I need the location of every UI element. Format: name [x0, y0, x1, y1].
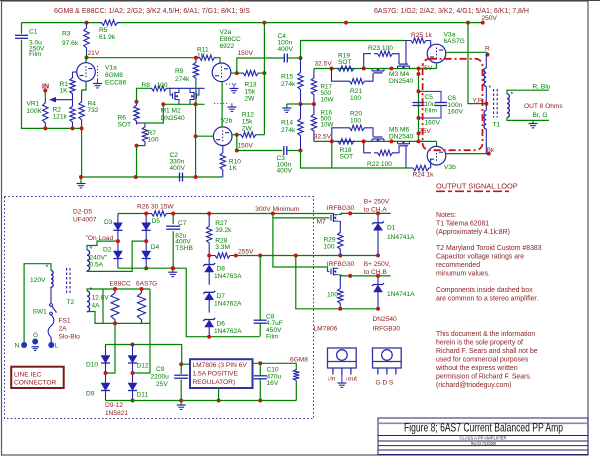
svg-text:16V: 16V: [267, 380, 279, 387]
svg-text:REGULATOR): REGULATOR): [193, 379, 236, 386]
wire M source to R7: [145, 104, 163, 124]
svg-text:2W: 2W: [242, 126, 253, 133]
resistor R13: [242, 70, 259, 75]
wire HV secondary bottom: [87, 241, 146, 271]
svg-text:32.5V: 32.5V: [315, 61, 333, 68]
zener D8: [208, 256, 210, 265]
diode D4: [145, 241, 147, 251]
wire mid ground link: [287, 103, 314, 105]
svg-text:OUTPUT SIGNAL LOOP: OUTPUT SIGNAL LOOP: [436, 182, 518, 191]
svg-text:255V: 255V: [238, 249, 254, 256]
wire cathode column: [418, 69, 420, 142]
wire input ground rail: [81, 128, 83, 177]
svg-text:6GM8: 6GM8: [290, 356, 308, 363]
wire 250V top rail: [22, 22, 103, 24]
svg-text:121k: 121k: [53, 114, 68, 121]
diode D5: [145, 214, 147, 223]
svg-text:DN2540: DN2540: [389, 78, 414, 85]
wire heater box: [87, 289, 150, 291]
regulator box LM7806: [190, 359, 253, 388]
resistor R22: [364, 141, 371, 152]
svg-text:↓in: ↓in: [327, 376, 336, 383]
svg-text:D5: D5: [152, 218, 161, 225]
title block: [378, 418, 588, 455]
svg-text:R22 100: R22 100: [367, 161, 392, 168]
svg-text:R9: R9: [175, 68, 184, 75]
svg-text:are common to a stereo amplifi: are common to a stereo amplifier.: [436, 296, 538, 303]
resistor R23: [364, 54, 371, 69]
package TO-220 DN2540: [373, 348, 402, 368]
svg-text:Y,P: Y,P: [473, 97, 483, 104]
svg-text:used for commercial purposes: used for commercial purposes: [436, 357, 529, 364]
capacitor C2: [179, 173, 181, 182]
wire C3 to R14 node: [287, 150, 301, 152]
resistor R20: [332, 128, 346, 142]
resistor R8: [150, 86, 168, 91]
resistor R19: [336, 66, 355, 71]
wire into regulator: [181, 363, 190, 365]
svg-text:IRFBG30: IRFBG30: [327, 205, 355, 212]
svg-text:Richard F. Sears and shall not: Richard F. Sears and shall not be: [436, 348, 538, 355]
wire regulator output: [253, 362, 297, 364]
svg-text:150V: 150V: [238, 143, 254, 150]
svg-text:LM7806 (3 PIN 6V: LM7806 (3 PIN 6V: [193, 362, 248, 369]
heater 6AS7G: [138, 289, 146, 323]
svg-text:10W: 10W: [321, 97, 334, 104]
wire LV bridge top rail: [106, 345, 182, 365]
svg-text:LM7806: LM7806: [314, 326, 338, 333]
svg-text:L: L: [55, 343, 59, 350]
resistor R2: [70, 100, 75, 129]
ground input stage: [80, 177, 82, 183]
resistor R25: [301, 41, 407, 59]
svg-text:V2a: V2a: [220, 29, 232, 36]
tube V3b: [427, 146, 446, 165]
svg-text:400V: 400V: [278, 46, 294, 53]
mosfet M1: [168, 87, 205, 89]
svg-text:R, Blu: R, Blu: [533, 83, 551, 90]
svg-text:39.2k: 39.2k: [215, 227, 232, 234]
svg-text:G: G: [33, 332, 38, 339]
svg-text:D12: D12: [137, 362, 149, 369]
resistor R3: [84, 23, 89, 54]
svg-text:0.5A: 0.5A: [90, 261, 104, 268]
svg-text:R29: R29: [324, 236, 336, 243]
wire LV ground rail: [106, 400, 297, 402]
svg-text:6AS7G: 1/G2; 2/A2, 3/K2, 4/G1;: 6AS7G: 1/G2; 2/A2, 3/K2, 4/G1; 5/A1; 6/K…: [374, 8, 529, 15]
svg-text:E88CC: E88CC: [220, 36, 241, 43]
V2b screen ground: [214, 102, 228, 104]
svg-text:1K: 1K: [60, 88, 69, 95]
plug pin L: [48, 342, 54, 348]
resistor R30 lower 100: [339, 276, 341, 283]
transformer T2 heater secondary: [87, 291, 90, 312]
svg-text:Figure 8; 6AS7 Current Balance: Figure 8; 6AS7 Current Balanced PP Amp: [404, 421, 563, 435]
svg-text:LINE IEC: LINE IEC: [14, 372, 42, 379]
svg-text:V1a: V1a: [105, 65, 117, 72]
svg-text:R14: R14: [281, 120, 293, 127]
svg-text:R23 100: R23 100: [368, 45, 393, 52]
svg-text:D9-12: D9-12: [105, 402, 123, 409]
svg-text:120V: 120V: [30, 277, 46, 284]
capacitor C4: [283, 54, 285, 63]
capacitor C1: [15, 34, 28, 36]
svg-text:2W: 2W: [245, 96, 256, 103]
resistor R9: [193, 58, 198, 83]
switch SW1: [50, 304, 53, 307]
capacitor C5: [413, 102, 425, 104]
resistor R11: [197, 55, 217, 60]
heater 6GM8 load: [295, 363, 297, 369]
svg-text:*: *: [46, 265, 49, 272]
tube V2b: [213, 127, 232, 146]
diode D10: [105, 345, 107, 356]
diode D11: [132, 373, 134, 383]
svg-text:R2: R2: [53, 107, 62, 114]
svg-text:15k: 15k: [242, 119, 253, 126]
svg-text:SW1: SW1: [33, 309, 48, 316]
svg-text:G D S: G D S: [376, 379, 395, 386]
svg-text:1.5A POSITIVE: 1.5A POSITIVE: [193, 370, 239, 377]
svg-text:4A: 4A: [92, 302, 101, 309]
mosfet M5: [372, 138, 384, 140]
resistor R16: [311, 104, 316, 141]
svg-text:Capacitor voltage ratings are: Capacitor voltage ratings are: [436, 254, 524, 261]
resistor R12: [240, 132, 257, 137]
svg-text:T2 Maryland Toroid Custom #838: T2 Maryland Toroid Custom #8383: [436, 245, 542, 252]
capacitor C7: [172, 214, 174, 225]
svg-text:1K: 1K: [197, 52, 206, 59]
wire V3a plate: [446, 51, 488, 53]
wire plate supply column: [263, 23, 265, 135]
svg-text:100: 100: [148, 137, 159, 144]
output signal loop dashed: [423, 59, 483, 150]
diode D12: [132, 345, 134, 356]
svg-text:Film: Film: [29, 51, 42, 58]
potentiometer VR1: [44, 91, 46, 98]
svg-text:12.6V: 12.6V: [92, 295, 110, 302]
svg-text:1N4741A: 1N4741A: [387, 234, 415, 241]
svg-text:*: *: [489, 85, 492, 92]
svg-text:CONNECTOR: CONNECTOR: [14, 380, 57, 387]
transformer T1 primary lower: [485, 86, 487, 110]
svg-text:*: *: [511, 92, 514, 99]
svg-text:300V Minimum: 300V Minimum: [255, 206, 299, 213]
wire R6 bottom to rail: [136, 146, 138, 177]
ground mid: [286, 104, 288, 108]
svg-text:R5: R5: [99, 27, 108, 34]
svg-text:R25 1k: R25 1k: [411, 32, 433, 39]
wire 255V line: [236, 255, 378, 257]
capacitor C9: [180, 364, 182, 374]
resistor R7: [137, 122, 146, 124]
svg-text:6922: 6922: [220, 43, 235, 50]
svg-text:without the express written: without the express written: [435, 365, 518, 372]
wire 150V to C3: [237, 150, 282, 152]
heater E88CC: [111, 289, 119, 323]
svg-text:D1: D1: [387, 225, 396, 232]
svg-text:274k: 274k: [281, 127, 296, 134]
svg-text:(Approximately 4.1k:8R): (Approximately 4.1k:8R): [436, 229, 510, 236]
tube V2a: [217, 58, 220, 63]
V2a screen ground: [226, 83, 238, 85]
svg-text:732: 732: [88, 107, 99, 114]
mosfet M3: [372, 70, 384, 72]
wire B+ CH.A: [339, 213, 391, 214]
zener D1: [377, 213, 379, 222]
svg-text:Slo-Blo: Slo-Blo: [59, 334, 81, 341]
capacitor C6: [419, 91, 442, 102]
svg-text:*: *: [90, 287, 93, 294]
wire lower CCS row: [314, 140, 437, 142]
wire mains N: [24, 264, 51, 343]
svg-text:UF4007: UF4007: [73, 217, 97, 224]
svg-text:C1: C1: [29, 28, 38, 35]
mosfet M8 IRFBG30 lower: [330, 269, 332, 275]
svg-text:97.6k: 97.6k: [62, 40, 79, 47]
svg-text:Film: Film: [425, 108, 438, 115]
svg-text:400V: 400V: [277, 168, 293, 175]
svg-text:100: 100: [324, 243, 335, 250]
dashed box power supply: [5, 197, 314, 419]
ground HV common: [172, 268, 174, 272]
wire B+ CH.B: [339, 274, 391, 277]
svg-text:OUT 8 Ohms: OUT 8 Ohms: [524, 103, 563, 110]
ground output: [532, 120, 534, 123]
svg-text:FS1: FS1: [59, 318, 71, 325]
svg-text:Br, G: Br, G: [533, 112, 548, 119]
transformer T2 HV secondary: [87, 250, 90, 271]
wire regulator ground pin: [218, 388, 220, 401]
mosfet M7 IRFBG30: [330, 215, 332, 221]
svg-text:400V: 400V: [170, 165, 186, 172]
svg-text:V3b: V3b: [444, 164, 456, 171]
svg-text:IRFGB30: IRFGB30: [373, 326, 401, 333]
svg-text:D8: D8: [217, 266, 226, 273]
diode D9: [105, 373, 107, 383]
svg-text:D3: D3: [104, 219, 113, 226]
svg-text:R27: R27: [215, 220, 227, 227]
svg-text:recommended: recommended: [436, 262, 480, 269]
junction dots LV bridge: [104, 371, 108, 375]
junction dots bridge: [116, 239, 120, 243]
svg-text:240V": 240V": [90, 254, 108, 261]
svg-text:DN2540: DN2540: [373, 316, 398, 323]
svg-text:100: 100: [350, 95, 361, 102]
svg-text:15k: 15k: [245, 89, 256, 96]
svg-text:D2: D2: [103, 247, 112, 254]
svg-text:1N4741A: 1N4741A: [387, 291, 415, 298]
fuse FS1: [48, 315, 54, 337]
svg-text:100: 100: [157, 82, 168, 89]
resistor R1: [70, 72, 75, 100]
svg-text:1N5821: 1N5821: [105, 410, 128, 417]
wire bridge bottom common: [118, 268, 260, 337]
svg-text:6GM8: 6GM8: [105, 72, 123, 79]
svg-text:TSHB: TSHB: [175, 245, 193, 252]
wire V3a cathode: [436, 63, 438, 69]
node 300V rail: [118, 213, 150, 215]
svg-text:R8: R8: [142, 82, 151, 89]
resistor R17: [311, 69, 316, 105]
wire 21V to driver: [86, 54, 88, 58]
svg-text:D7: D7: [217, 293, 226, 300]
resistor R15: [298, 58, 303, 104]
svg-text:R12: R12: [242, 112, 254, 119]
wire phase splitter column: [195, 104, 197, 177]
tube V1a: [77, 63, 96, 82]
svg-text:ECC86: ECC86: [105, 80, 127, 87]
wire heater to bridge right: [133, 323, 151, 373]
ground regulator package: [341, 375, 343, 383]
svg-text:160V: 160V: [448, 109, 464, 116]
resistor R18: [336, 139, 355, 144]
wire HV secondary top: [87, 241, 118, 250]
svg-text:100: 100: [327, 291, 338, 298]
junction dots input rail: [43, 126, 47, 130]
svg-text:Notes:: Notes:: [436, 212, 456, 219]
svg-text:274k: 274k: [281, 81, 296, 88]
svg-text:R13: R13: [245, 82, 257, 89]
diode D3: [117, 214, 119, 223]
svg-text:6AS7G: 6AS7G: [136, 280, 157, 287]
svg-text:100K: 100K: [27, 108, 43, 115]
resistor R29: [339, 221, 341, 226]
plug pin G: [32, 339, 38, 345]
svg-text:herein is the sole property of: herein is the sole property of: [436, 340, 523, 347]
resistor R10: [220, 146, 225, 178]
transformer T2 primary: [51, 271, 53, 288]
svg-text:150V: 150V: [238, 50, 254, 57]
svg-text:C9: C9: [156, 366, 165, 373]
resistor R4: [79, 93, 84, 128]
svg-text:1N4762A: 1N4762A: [214, 301, 242, 308]
zener D1b lower: [377, 276, 379, 284]
svg-text:SOT: SOT: [118, 122, 132, 129]
zener D6: [203, 318, 215, 321]
svg-text:to CH.B: to CH.B: [364, 269, 388, 276]
svg-text:D6: D6: [217, 320, 226, 327]
svg-text:SOT: SOT: [340, 154, 354, 161]
svg-text:E88CC: E88CC: [110, 280, 131, 287]
svg-text:2A: 2A: [59, 326, 68, 333]
wire M1 M2 source line: [163, 103, 204, 105]
svg-text:274k: 274k: [175, 76, 190, 83]
transformer T2 core: [66, 268, 68, 294]
mosfet M2: [196, 93, 198, 99]
VR1 wiper arrow: [52, 99, 73, 101]
svg-text:M7: M7: [317, 219, 326, 226]
capacitor C3: [283, 146, 285, 155]
svg-text:R15: R15: [281, 74, 293, 81]
wire lower B node: [296, 256, 378, 309]
wire B+ to T1 center tap: [468, 23, 486, 104]
resistor R5: [100, 20, 119, 25]
transformer T1 secondary: [507, 94, 509, 118]
svg-text:2200u: 2200u: [151, 374, 170, 381]
svg-text:N: N: [15, 343, 20, 350]
mosfet M4: [398, 65, 410, 67]
svg-text:V2b: V2b: [221, 118, 233, 125]
svg-text:R24 1k: R24 1k: [413, 172, 435, 179]
svg-text:*: *: [90, 246, 93, 253]
svg-text:3.3M: 3.3M: [215, 244, 230, 251]
resistor R28: [209, 253, 236, 258]
svg-text:1N4762A: 1N4762A: [214, 328, 242, 335]
svg-text:D11: D11: [137, 392, 149, 399]
svg-text:1N4763A: 1N4763A: [214, 273, 242, 280]
svg-text:61.9k: 61.9k: [99, 34, 116, 41]
svg-text:C7: C7: [178, 220, 187, 227]
svg-text:(richard@triodeguy.com): (richard@triodeguy.com): [436, 382, 511, 389]
resistor R27: [207, 214, 212, 256]
svg-text:T1: T1: [493, 122, 501, 129]
tube V3a: [427, 44, 446, 63]
svg-text:100: 100: [350, 117, 361, 124]
resistor R24: [301, 151, 412, 169]
svg-text:6AS7G: 6AS7G: [444, 38, 465, 45]
wire heater to bridge left: [106, 323, 116, 373]
svg-text:Rev 03 7/12/2009: Rev 03 7/12/2009: [471, 441, 497, 446]
svg-text:VR1: VR1: [27, 101, 40, 108]
svg-text:D9: D9: [86, 390, 95, 397]
svg-text:D10: D10: [86, 362, 98, 369]
svg-text:R3: R3: [62, 31, 71, 38]
capacitor C10: [259, 363, 261, 375]
package TO-220 LM7806: [328, 348, 357, 368]
box LINE IEC CONNECTOR: [11, 367, 64, 388]
svg-text:B+ 250V: B+ 250V: [364, 199, 390, 206]
wire upper CCS row: [314, 68, 437, 70]
wire V2b grid: [196, 135, 214, 137]
mosfet M6: [398, 143, 410, 145]
svg-text:DN2540: DN2540: [389, 133, 414, 140]
svg-text:Film: Film: [266, 334, 279, 341]
wire left column: [21, 23, 23, 34]
svg-text:DN2540: DN2540: [161, 115, 186, 122]
svg-text:SOT: SOT: [338, 59, 352, 66]
svg-text:R: R: [485, 46, 490, 53]
svg-text:This document & the informatio: This document & the information: [436, 331, 535, 338]
svg-text:160V: 160V: [425, 120, 441, 127]
junction dots on top rail: [85, 21, 89, 25]
svg-text:T1 Talema 62081: T1 Talema 62081: [436, 221, 489, 228]
svg-text:IRFBG30: IRFBG30: [327, 261, 355, 268]
diode D2: [117, 241, 119, 251]
wire V2a plate node: [231, 72, 243, 74]
svg-text:permission of Richard F. Sears: permission of Richard F. Sears.: [436, 374, 532, 381]
svg-text:D4: D4: [151, 244, 160, 251]
resistor R14: [298, 104, 303, 151]
svg-text:↓out: ↓out: [345, 376, 358, 383]
svg-text:to CH.A: to CH.A: [364, 206, 388, 213]
transformer T1 primary upper: [486, 55, 487, 68]
plug pin N: [21, 342, 27, 348]
svg-text:25V: 25V: [156, 381, 168, 388]
V1a screen ground: [97, 66, 99, 78]
ground LV: [180, 401, 182, 405]
svg-text:32.5V: 32.5V: [314, 134, 332, 141]
resistor R26: [150, 211, 169, 216]
wire C4 to R15: [287, 57, 300, 59]
svg-text:R26 30 15W: R26 30 15W: [137, 203, 174, 210]
capacitor C8: [259, 256, 261, 320]
resistor R6: [134, 102, 139, 125]
svg-text:minumum values.: minumum values.: [436, 271, 490, 278]
svg-text:D2-D5: D2-D5: [73, 209, 92, 216]
svg-text:Components inside dashed box: Components inside dashed box: [436, 287, 533, 294]
zener D7: [203, 291, 215, 294]
